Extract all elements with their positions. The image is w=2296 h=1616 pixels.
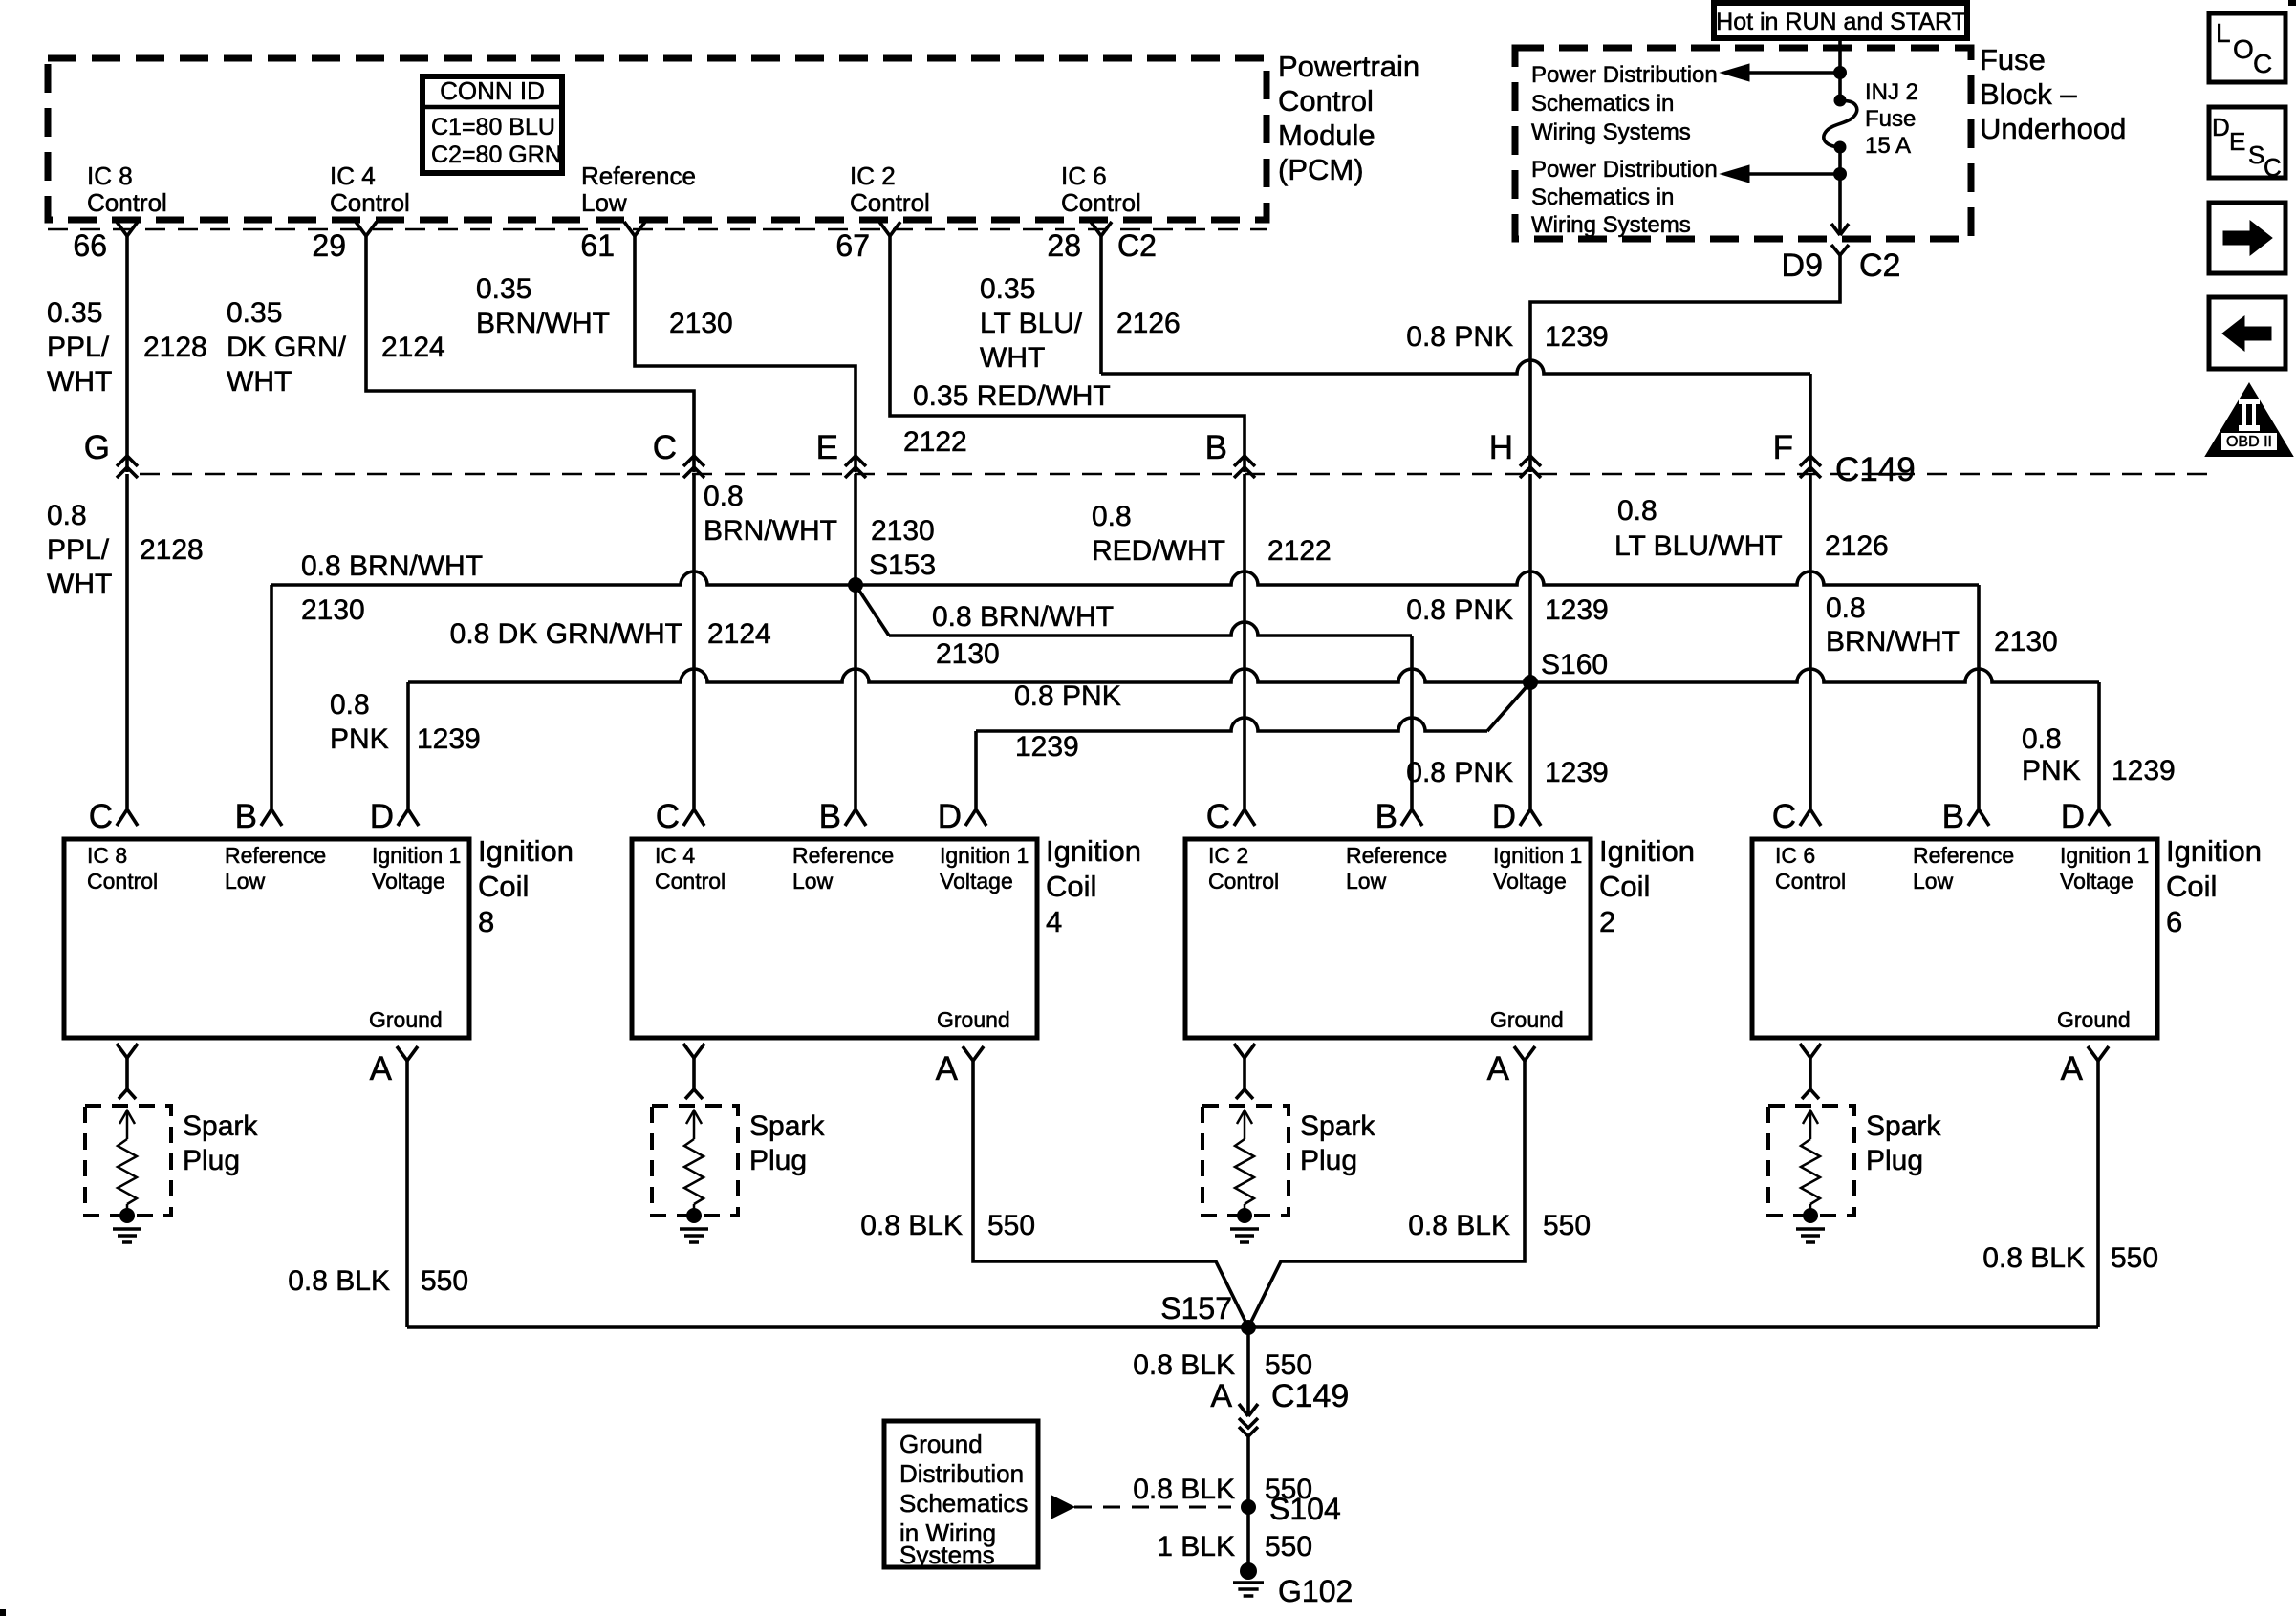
C149 pin F connector chevrons — [1800, 456, 1821, 466]
svg-text:C: C — [1206, 798, 1230, 835]
svg-text:1239: 1239 — [1015, 731, 1079, 763]
svg-text:Schematics in: Schematics in — [1531, 184, 1674, 210]
svg-text:Reference: Reference — [581, 162, 696, 190]
svg-text:PNK: PNK — [330, 723, 389, 755]
svg-text:(PCM): (PCM) — [1278, 153, 1364, 186]
svg-text:0.8: 0.8 — [330, 689, 370, 721]
svg-text:Reference: Reference — [225, 843, 326, 868]
svg-text:WHT: WHT — [980, 342, 1045, 374]
svg-text:IC 4: IC 4 — [655, 843, 695, 868]
svg-text:C: C — [1772, 798, 1796, 835]
svg-text:0.8: 0.8 — [1092, 501, 1132, 532]
svg-text:BRN/WHT: BRN/WHT — [1826, 626, 1960, 657]
PCM pin 29 connector fork — [356, 222, 377, 236]
svg-text:A: A — [370, 1050, 393, 1088]
svg-text:Systems: Systems — [899, 1541, 995, 1569]
PCM module dashed box (Powertrain Control Module) — [48, 58, 1267, 220]
svg-text:550: 550 — [987, 1210, 1035, 1241]
svg-text:Fuse: Fuse — [1980, 43, 2046, 76]
connector C149 pin A pass-through — [1239, 1404, 1258, 1416]
ground G102 — [1240, 1562, 1257, 1580]
Hot in RUN and START power tag box — [1714, 3, 1967, 38]
svg-text:B: B — [1942, 798, 1964, 835]
svg-text:Distribution: Distribution — [899, 1459, 1024, 1488]
spark plug 4 gap arrow and resistor — [686, 1110, 702, 1124]
svg-text:C: C — [2253, 49, 2272, 78]
svg-text:B: B — [1375, 798, 1397, 835]
svg-text:PPL/: PPL/ — [47, 534, 110, 566]
svg-text:550: 550 — [2111, 1242, 2158, 1274]
svg-text:0.8 PNK: 0.8 PNK — [1014, 680, 1121, 712]
DESC legend box — [2209, 107, 2285, 178]
svg-text:0.35: 0.35 — [47, 297, 102, 329]
svg-text:IC 8: IC 8 — [87, 843, 127, 868]
svg-text:0.8: 0.8 — [1617, 495, 1657, 527]
svg-text:C1=80 BLU: C1=80 BLU — [431, 114, 555, 140]
svg-text:S157: S157 — [1160, 1291, 1232, 1325]
svg-text:0.8 BRN/WHT: 0.8 BRN/WHT — [301, 550, 483, 582]
svg-text:0.8 PNK: 0.8 PNK — [1406, 594, 1513, 626]
svg-text:550: 550 — [1265, 1531, 1312, 1562]
svg-text:0.8 BRN/WHT: 0.8 BRN/WHT — [932, 601, 1114, 633]
D9/C2 exit arrow and fork at fuse block edge — [1831, 224, 1849, 235]
svg-text:4: 4 — [1046, 905, 1062, 938]
svg-text:F: F — [1773, 429, 1793, 466]
svg-text:Underhood: Underhood — [1980, 112, 2126, 145]
spark plug 6 dashed box — [1768, 1106, 1854, 1216]
svg-text:Control: Control — [1208, 869, 1279, 894]
svg-text:Spark: Spark — [749, 1110, 825, 1142]
coil 2 top pin connector forks and letters — [1234, 809, 1255, 826]
svg-text:Plug: Plug — [749, 1145, 807, 1176]
svg-text:D: D — [1492, 798, 1516, 835]
svg-text:1239: 1239 — [1545, 594, 1609, 626]
spark plug 6 gap arrow and resistor — [1803, 1110, 1818, 1124]
wire 2124 DK GRN/WHT: PCM pin 29 to C149 pin C — [366, 236, 694, 472]
power distribution branch arrow (lower) — [1749, 172, 1840, 176]
svg-text:E: E — [816, 429, 838, 466]
wire 2124: C149 C to coil 4 pin C — [692, 474, 696, 808]
svg-text:CONN ID: CONN ID — [440, 76, 545, 105]
svg-text:Spark: Spark — [183, 1110, 258, 1142]
svg-text:IC 2: IC 2 — [1208, 843, 1248, 868]
svg-text:WHT: WHT — [227, 366, 292, 398]
svg-text:D: D — [2061, 798, 2085, 835]
wire 2126: C149 F to coil 6 pin C — [1809, 474, 1812, 808]
svg-text:2122: 2122 — [1267, 535, 1332, 567]
ignition coil 2 box — [1185, 839, 1591, 1038]
svg-text:Ground: Ground — [899, 1430, 983, 1458]
svg-text:1239: 1239 — [417, 723, 481, 755]
spark plug 8 ground dot — [119, 1208, 135, 1223]
svg-text:Voltage: Voltage — [1493, 869, 1567, 894]
ground wire below S157: 0.8 BLK 550 — [1246, 1327, 1250, 1416]
page corner mark top right — [2288, 0, 2296, 6]
splice S104 — [1241, 1499, 1256, 1515]
svg-text:Wiring Systems: Wiring Systems — [1531, 212, 1691, 238]
right arrow legend box — [2209, 203, 2285, 273]
svg-text:Voltage: Voltage — [372, 869, 445, 894]
svg-text:Ground: Ground — [369, 1007, 443, 1032]
svg-text:Reference: Reference — [1913, 843, 2014, 868]
svg-text:B: B — [819, 798, 841, 835]
svg-text:Ground: Ground — [2057, 1007, 2131, 1032]
svg-text:INJ 2: INJ 2 — [1865, 79, 1918, 105]
svg-text:IC 4: IC 4 — [330, 162, 376, 190]
svg-text:B: B — [1205, 429, 1227, 466]
wire drop to coil 6 pin D — [2097, 682, 2101, 808]
svg-text:Plug: Plug — [1300, 1145, 1357, 1176]
svg-text:LT BLU/: LT BLU/ — [980, 308, 1083, 339]
C149 pin G connector chevrons — [117, 456, 138, 466]
spark plug 2 ground symbol — [1230, 1227, 1259, 1231]
PCM pin 61 connector fork — [624, 222, 645, 236]
wire 2128 PPL/WHT: PCM pin 66 to C149 pin G — [125, 236, 129, 472]
svg-text:Voltage: Voltage — [2060, 869, 2134, 894]
svg-text:H: H — [1489, 429, 1513, 466]
spark plug 8 ground symbol — [113, 1227, 141, 1231]
svg-text:2130: 2130 — [936, 638, 1000, 670]
wire 1239 PNK: fuse block to C149 pin H — [1530, 273, 1840, 472]
svg-text:BRN/WHT: BRN/WHT — [476, 308, 610, 339]
coil 6 top pin connector forks and letters — [1800, 809, 1821, 826]
svg-text:1239: 1239 — [2112, 755, 2176, 786]
svg-text:0.8 BLK: 0.8 BLK — [860, 1210, 963, 1241]
wire 2122 RED/WHT: PCM pin 67 to C149 pin B — [890, 236, 1245, 472]
svg-text:Module: Module — [1278, 119, 1375, 152]
svg-text:PNK: PNK — [2022, 755, 2081, 786]
wire 2130 BRN/WHT: PCM pin 61 to C149 pin E — [635, 236, 856, 472]
svg-text:Plug: Plug — [1866, 1145, 1923, 1176]
coil 2 spark plug connector — [1234, 1044, 1255, 1058]
coil 4 pin A ground wire — [973, 1061, 1248, 1327]
svg-text:Reference: Reference — [792, 843, 894, 868]
svg-text:0.8 BLK: 0.8 BLK — [288, 1265, 390, 1297]
svg-text:DK GRN/: DK GRN/ — [227, 332, 347, 363]
CONN ID table box — [422, 76, 562, 173]
svg-text:C149: C149 — [1835, 451, 1916, 488]
coil 6 spark plug connector — [1800, 1044, 1821, 1058]
svg-text:0.8 BLK: 0.8 BLK — [1408, 1210, 1510, 1241]
svg-text:LT BLU/WHT: LT BLU/WHT — [1614, 530, 1783, 562]
svg-text:2126: 2126 — [1116, 308, 1180, 339]
coil 8 spark plug connector — [117, 1044, 138, 1058]
wire 2128: C149 G to coil 8 pin C — [125, 474, 129, 808]
svg-text:2128: 2128 — [143, 332, 207, 363]
svg-text:Ignition 1: Ignition 1 — [940, 843, 1029, 868]
svg-text:Control: Control — [1775, 869, 1846, 894]
svg-text:2130: 2130 — [669, 308, 733, 339]
svg-text:D: D — [2212, 113, 2230, 141]
svg-text:RED/WHT: RED/WHT — [1092, 535, 1225, 567]
svg-text:WHT: WHT — [47, 366, 112, 398]
svg-text:Ignition 1: Ignition 1 — [1493, 843, 1582, 868]
svg-text:550: 550 — [1543, 1210, 1591, 1241]
svg-text:E: E — [2229, 127, 2245, 156]
OBD II triangle symbol — [2206, 384, 2292, 456]
svg-text:Control: Control — [87, 869, 158, 894]
svg-text:1239: 1239 — [1545, 321, 1609, 353]
svg-text:G102: G102 — [1278, 1574, 1353, 1608]
ground bus wire to splice S157 — [407, 1325, 2098, 1329]
coil 4 pin A connector — [963, 1046, 984, 1061]
svg-text:Wiring Systems: Wiring Systems — [1531, 119, 1691, 145]
svg-text:Reference: Reference — [1346, 843, 1447, 868]
svg-text:2130: 2130 — [301, 594, 365, 626]
svg-text:IC 6: IC 6 — [1061, 162, 1107, 190]
svg-text:C: C — [656, 798, 680, 835]
svg-text:550: 550 — [1265, 1349, 1312, 1381]
coil 6 pin A ground wire — [2096, 1061, 2100, 1327]
svg-text:29: 29 — [312, 228, 346, 263]
svg-text:66: 66 — [73, 228, 107, 263]
svg-text:Ignition: Ignition — [2166, 834, 2262, 868]
svg-text:0.8 PNK: 0.8 PNK — [1406, 321, 1513, 353]
C149 pin H connector chevrons — [1520, 456, 1541, 466]
PCM pin 66 connector fork — [117, 222, 138, 236]
svg-text:Control: Control — [1061, 188, 1141, 217]
svg-text:A: A — [936, 1050, 959, 1088]
svg-text:S104: S104 — [1269, 1492, 1341, 1526]
svg-text:C2=80 GRN: C2=80 GRN — [431, 141, 562, 168]
Ground Distribution reference box — [884, 1421, 1038, 1567]
svg-text:A: A — [1487, 1050, 1510, 1088]
svg-text:Control: Control — [850, 188, 930, 217]
wire 1239: C149 H down through splice S160 to coil 2 pin D — [1528, 474, 1532, 808]
svg-text:0.8 DK GRN/WHT: 0.8 DK GRN/WHT — [450, 618, 682, 650]
Fuse Block - Underhood dashed box — [1515, 48, 1971, 239]
svg-text:2: 2 — [1599, 905, 1615, 938]
svg-text:0.35 RED/WHT: 0.35 RED/WHT — [913, 380, 1111, 412]
svg-text:0.8 BLK: 0.8 BLK — [1133, 1349, 1235, 1381]
LOC legend box — [2209, 13, 2285, 82]
fuse INJ 2 element — [1834, 95, 1847, 107]
svg-text:C: C — [2264, 153, 2282, 182]
svg-text:IC 2: IC 2 — [850, 162, 896, 190]
svg-text:Low: Low — [1913, 869, 1954, 894]
svg-text:S160: S160 — [1541, 649, 1608, 680]
spark plug 2 dashed box — [1202, 1106, 1289, 1216]
svg-text:Low: Low — [792, 869, 834, 894]
svg-text:2124: 2124 — [707, 618, 771, 650]
power distribution branch arrow (upper) — [1749, 71, 1840, 75]
svg-text:Plug: Plug — [183, 1145, 240, 1176]
junction dot upper — [1833, 66, 1847, 79]
wire drop to coil 8 pin B — [270, 585, 273, 808]
spark plug 4 ground symbol — [680, 1227, 708, 1231]
spark plug 4 ground dot — [686, 1208, 702, 1223]
svg-text:2128: 2128 — [140, 534, 204, 566]
svg-text:Ignition: Ignition — [1599, 834, 1695, 868]
svg-text:0.8: 0.8 — [704, 481, 744, 512]
svg-text:0.8: 0.8 — [1826, 593, 1866, 624]
svg-text:Coil: Coil — [2166, 870, 2217, 903]
svg-text:0.8: 0.8 — [47, 500, 87, 531]
svg-text:Control: Control — [655, 869, 726, 894]
wire 2122: C149 B to coil 2 pin C — [1243, 474, 1246, 808]
spark plug 2 gap arrow and resistor — [1237, 1110, 1252, 1124]
svg-text:IC 8: IC 8 — [87, 162, 133, 190]
svg-text:D9: D9 — [1782, 248, 1823, 284]
fuse feed wire inside fuse block — [1838, 38, 1842, 99]
svg-text:0.8 BLK: 0.8 BLK — [1982, 1242, 2085, 1274]
svg-text:Low: Low — [225, 869, 266, 894]
svg-text:Schematics: Schematics — [899, 1489, 1028, 1518]
C149 pin E connector chevrons — [845, 456, 866, 466]
svg-text:0.8 BLK: 0.8 BLK — [1133, 1474, 1235, 1505]
coil 8 top pin connector forks and letters — [117, 809, 138, 826]
svg-text:2130: 2130 — [871, 515, 935, 547]
PCM pin 67 connector fork — [879, 222, 900, 236]
svg-text:61: 61 — [580, 228, 615, 263]
svg-text:IC 6: IC 6 — [1775, 843, 1815, 868]
spark plug 8 gap arrow and resistor — [119, 1110, 135, 1124]
PNK 1239 branch from S160 to coil 4 pin D — [1487, 682, 1530, 731]
svg-text:Spark: Spark — [1866, 1110, 1941, 1142]
svg-text:Power Distribution: Power Distribution — [1531, 62, 1718, 88]
svg-text:Low: Low — [1346, 869, 1387, 894]
svg-text:2126: 2126 — [1825, 530, 1889, 562]
BRN/WHT 2130 branch from S153 to coil 2 pin B — [856, 585, 889, 636]
svg-text:Hot in RUN and START: Hot in RUN and START — [1716, 9, 1966, 35]
svg-text:2130: 2130 — [1994, 626, 2058, 657]
PNK 1239 bus row through S160: coil 8 D across to coil 6 D — [408, 669, 2099, 682]
ignition coil 8 box — [64, 839, 469, 1038]
svg-text:Powertrain: Powertrain — [1278, 50, 1419, 83]
svg-text:15 A: 15 A — [1865, 133, 1911, 159]
svg-text:C2: C2 — [1859, 248, 1900, 284]
svg-text:Schematics in: Schematics in — [1531, 91, 1674, 117]
svg-text:D: D — [370, 798, 394, 835]
svg-text:2122: 2122 — [903, 426, 967, 458]
PCM pin 28 connector fork — [1091, 222, 1112, 236]
svg-text:0.35: 0.35 — [980, 273, 1035, 305]
svg-text:C: C — [89, 798, 113, 835]
svg-text:Voltage: Voltage — [940, 869, 1013, 894]
svg-text:Fuse: Fuse — [1865, 106, 1916, 132]
svg-text:Coil: Coil — [1599, 870, 1650, 903]
spark plug 2 ground dot — [1237, 1208, 1252, 1223]
svg-text:C: C — [653, 429, 677, 466]
svg-text:0.8: 0.8 — [2022, 723, 2062, 755]
wire 2130: C149 E down through splice S153 to coil 4 pin B — [854, 474, 857, 808]
svg-text:Ground: Ground — [937, 1007, 1010, 1032]
spark plug 8 dashed box — [85, 1106, 171, 1216]
svg-text:PPL/: PPL/ — [47, 332, 110, 363]
wire drop to coil 8 pin D — [406, 682, 410, 808]
coil 2 pin A connector — [1514, 1046, 1535, 1061]
svg-text:1 BLK: 1 BLK — [1157, 1531, 1235, 1562]
svg-text:0.8 PNK: 0.8 PNK — [1406, 757, 1513, 788]
svg-text:1239: 1239 — [1545, 757, 1609, 788]
junction dot lower — [1833, 167, 1847, 181]
svg-text:2124: 2124 — [381, 332, 445, 363]
page corner mark bottom left — [0, 1609, 6, 1616]
svg-text:0.35: 0.35 — [227, 297, 282, 329]
svg-text:Ignition 1: Ignition 1 — [372, 843, 461, 868]
ignition coil 4 box — [632, 839, 1037, 1038]
svg-text:8: 8 — [478, 905, 494, 938]
svg-text:WHT: WHT — [47, 569, 112, 600]
svg-text:Ignition: Ignition — [1046, 834, 1141, 868]
svg-text:L: L — [2216, 18, 2231, 48]
svg-text:Ignition: Ignition — [478, 834, 574, 868]
spark plug 6 ground symbol — [1796, 1227, 1825, 1231]
ignition coil 6 box — [1752, 839, 2157, 1038]
svg-text:Power Distribution: Power Distribution — [1531, 157, 1718, 183]
wire drop to coil 6 pin B — [1977, 585, 1981, 808]
wire 2126 LT BLU/WHT: PCM pin 28 to C149 pin F — [1099, 236, 1103, 374]
svg-text:0.35: 0.35 — [476, 273, 531, 305]
svg-text:O: O — [2233, 34, 2254, 64]
coil 6 pin A connector — [2088, 1046, 2109, 1061]
svg-text:C2: C2 — [1117, 228, 1157, 263]
svg-text:OBD II: OBD II — [2226, 434, 2272, 450]
svg-text:6: 6 — [2166, 905, 2182, 938]
C149 in-line connector dashed line — [140, 473, 2210, 476]
svg-text:A: A — [2061, 1050, 2084, 1088]
C149 pin C connector chevrons — [683, 456, 704, 466]
svg-text:C149: C149 — [1271, 1378, 1349, 1414]
svg-text:A: A — [1210, 1378, 1232, 1414]
splice S157 — [1241, 1320, 1256, 1335]
svg-text:67: 67 — [835, 228, 870, 263]
coil 4 spark plug connector — [683, 1044, 704, 1058]
coil 2 pin A ground wire — [1248, 1061, 1525, 1327]
svg-text:B: B — [235, 798, 257, 835]
svg-text:Ground: Ground — [1490, 1007, 1564, 1032]
svg-text:Ignition 1: Ignition 1 — [2060, 843, 2149, 868]
svg-text:Block –: Block – — [1980, 77, 2077, 111]
svg-text:S153: S153 — [869, 549, 936, 581]
svg-text:Control: Control — [87, 188, 167, 217]
svg-text:Coil: Coil — [1046, 870, 1096, 903]
svg-text:G: G — [84, 429, 110, 466]
splice S153 — [848, 577, 863, 593]
svg-text:Control: Control — [330, 188, 410, 217]
svg-text:Low: Low — [581, 188, 627, 217]
C149 pin B connector chevrons — [1234, 456, 1255, 466]
spark plug 4 dashed box — [652, 1106, 738, 1216]
svg-text:Coil: Coil — [478, 870, 529, 903]
svg-text:Control: Control — [1278, 84, 1374, 118]
svg-text:BRN/WHT: BRN/WHT — [704, 515, 837, 547]
svg-text:S: S — [2248, 140, 2264, 169]
BRN/WHT 2130 bus row: coil 8 B across to coil 6 B — [271, 571, 1979, 585]
svg-text:D: D — [938, 798, 962, 835]
svg-text:Spark: Spark — [1300, 1110, 1375, 1142]
svg-text:28: 28 — [1047, 228, 1081, 263]
svg-text:550: 550 — [421, 1265, 468, 1297]
coil 8 pin A connector — [397, 1046, 418, 1061]
dashed reference arrow to S104 — [1051, 1496, 1074, 1519]
spark plug 6 ground dot — [1803, 1208, 1818, 1223]
coil 4 top pin connector forks and letters — [683, 809, 704, 826]
PCM connector pin row dashed line — [48, 228, 1267, 231]
left arrow legend box — [2209, 297, 2285, 369]
coil 8 pin A ground wire 0.8 BLK 550 — [405, 1061, 409, 1327]
splice S160 — [1523, 675, 1538, 690]
